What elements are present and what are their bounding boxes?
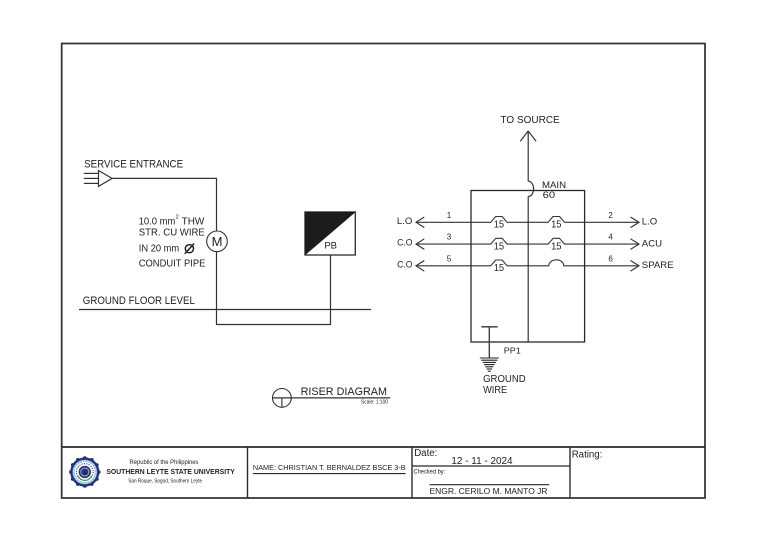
svg-text:WIRE: WIRE — [483, 385, 508, 396]
signature line — [430, 484, 550, 486]
title: north/section marker circle — [273, 389, 292, 408]
wire: service entrance to meter, down to floor, to PB — [112, 178, 331, 324]
svg-text:SOUTHERN LEYTE STATE UNIVERSIT: SOUTHERN LEYTE STATE UNIVERSITY — [106, 469, 235, 476]
ground tap (T-bar) — [481, 326, 497, 328]
svg-text:PP1: PP1 — [504, 346, 521, 356]
service entrance symbol (3 feeder lines) — [84, 173, 99, 183]
svg-text:ENGR. CERILO M. MANTO JR: ENGR. CERILO M. MANTO JR — [430, 486, 548, 496]
arrowhead left circuit 5 — [416, 261, 424, 272]
svg-text:SERVICE ENTRANCE: SERVICE ENTRANCE — [84, 158, 183, 170]
arrowhead left circuit 1 — [416, 217, 424, 228]
svg-text:IN 20 mm: IN 20 mm — [139, 243, 179, 254]
svg-text:15: 15 — [494, 263, 505, 274]
svg-text:C.O: C.O — [397, 259, 412, 270]
svg-text:6: 6 — [608, 254, 613, 263]
circuit 3-4 wire with breakers — [416, 238, 639, 244]
svg-text:10.0 mm: 10.0 mm — [139, 216, 176, 227]
circuit 1-2 wire with breakers — [416, 217, 639, 223]
main breaker (arc) — [528, 181, 533, 196]
svg-text:C.O: C.O — [397, 238, 412, 249]
svg-text:MAIN: MAIN — [542, 180, 566, 190]
svg-text:A: A — [82, 471, 87, 477]
arrowhead right circuit 2 — [631, 217, 640, 228]
riser bus wire — [527, 131, 529, 181]
to-source arrow — [520, 131, 536, 141]
svg-text:NAME: CHRISTIAN T. BERNALDEZ B: NAME: CHRISTIAN T. BERNALDEZ BSCE 3-B — [253, 465, 406, 472]
svg-text:San Roque, Sogod, Southern Ley: San Roque, Sogod, Southern Leyte — [128, 478, 202, 484]
svg-text:15: 15 — [551, 220, 562, 231]
name underline — [253, 473, 406, 475]
svg-text:SPARE: SPARE — [642, 260, 674, 271]
svg-text:1: 1 — [447, 211, 452, 220]
title block divider 3 — [569, 447, 571, 498]
svg-text:Date:: Date: — [414, 448, 437, 459]
svg-text:L.O: L.O — [642, 217, 657, 228]
svg-text:3: 3 — [447, 233, 452, 242]
svg-text:60: 60 — [543, 190, 556, 200]
svg-text:2: 2 — [608, 211, 613, 220]
svg-text:THW: THW — [182, 216, 205, 227]
svg-text:Checked by:: Checked by: — [414, 469, 446, 475]
title block top line — [62, 446, 705, 448]
svg-text:GROUND: GROUND — [483, 374, 526, 385]
arrowhead right circuit 4 — [631, 239, 640, 250]
ground wire stem — [488, 327, 490, 358]
panel board PB (box, half filled) — [305, 212, 355, 255]
svg-text:CONDUIT PIPE: CONDUIT PIPE — [139, 259, 206, 270]
ground floor level line — [79, 309, 371, 311]
svg-text:2: 2 — [176, 215, 179, 221]
panel PP1 enclosure — [471, 191, 585, 343]
circuit 5-6 wire with breakers — [416, 260, 639, 266]
university seal logo — [69, 456, 101, 488]
svg-text:RISER DIAGRAM: RISER DIAGRAM — [301, 386, 387, 398]
svg-text:STR. CU WIRE: STR. CU WIRE — [139, 228, 205, 239]
title block divider 1 — [247, 447, 249, 498]
title block divider 2 — [411, 447, 413, 498]
svg-text:Rating:: Rating: — [572, 450, 603, 461]
svg-text:Republic of the Philippines: Republic of the Philippines — [130, 460, 199, 466]
date/checked divider — [412, 465, 570, 467]
svg-text:15: 15 — [494, 220, 505, 231]
svg-text:15: 15 — [551, 241, 562, 252]
meter M1 — [207, 231, 228, 252]
svg-text:5: 5 — [447, 254, 452, 263]
service entrance arrowhead triangle — [99, 171, 113, 187]
border frame — [62, 44, 705, 499]
arrowhead left circuit 3 — [416, 239, 424, 250]
svg-text:M: M — [212, 234, 223, 249]
svg-text:GROUND FLOOR LEVEL: GROUND FLOOR LEVEL — [83, 295, 195, 307]
svg-text:ACU: ACU — [642, 238, 662, 249]
svg-text:12 - 11 - 2024: 12 - 11 - 2024 — [451, 456, 513, 467]
svg-text:Scale: 1:100: Scale: 1:100 — [361, 400, 388, 406]
svg-text:L.O: L.O — [397, 216, 412, 227]
diameter symbol — [185, 244, 194, 254]
svg-text:4: 4 — [608, 233, 613, 242]
wire spec label — [139, 215, 206, 270]
svg-text:PB: PB — [324, 241, 337, 252]
arrowhead right circuit 6 — [631, 261, 640, 272]
svg-text:TO SOURCE: TO SOURCE — [501, 115, 561, 126]
title underline — [273, 397, 391, 399]
ground symbol — [480, 358, 499, 371]
bus continues inside panel — [527, 197, 529, 343]
svg-text:15: 15 — [494, 241, 505, 252]
